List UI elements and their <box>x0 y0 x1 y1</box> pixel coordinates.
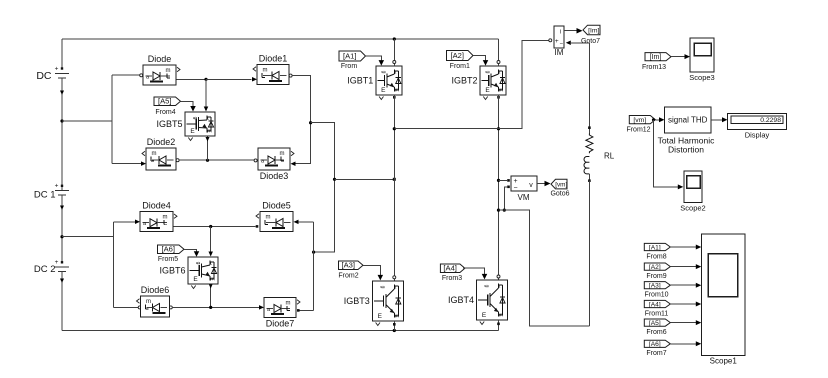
svg-text:RL: RL <box>604 152 615 161</box>
svg-text:g: g <box>195 262 201 265</box>
svg-text:From1: From1 <box>450 63 470 70</box>
svg-text:From13: From13 <box>642 64 666 71</box>
svg-text:E: E <box>485 87 490 94</box>
svg-text:From11: From11 <box>645 310 669 317</box>
svg-text:Diode3: Diode3 <box>260 171 289 181</box>
svg-text:g: g <box>379 286 385 289</box>
svg-text:[A5]: [A5] <box>649 320 661 327</box>
svg-text:Goto7: Goto7 <box>581 38 600 45</box>
svg-text:[A6]: [A6] <box>649 341 661 348</box>
svg-text:m: m <box>152 151 157 157</box>
svg-text:m: m <box>280 151 285 157</box>
svg-text:[A5]: [A5] <box>158 97 172 106</box>
svg-text:−: − <box>559 42 563 48</box>
svg-text:From4: From4 <box>155 109 175 116</box>
svg-text:Diode1: Diode1 <box>259 54 288 64</box>
svg-text:From5: From5 <box>158 256 178 263</box>
svg-text:m: m <box>146 299 151 305</box>
svg-text:+: + <box>55 66 59 73</box>
svg-text:Diode5: Diode5 <box>262 201 291 211</box>
svg-text:m: m <box>266 215 271 221</box>
svg-text:IGBT4: IGBT4 <box>448 295 474 305</box>
svg-text:[Im]: [Im] <box>588 27 599 34</box>
svg-text:m: m <box>286 301 291 307</box>
svg-text:From3: From3 <box>442 275 462 282</box>
svg-text:C: C <box>393 70 399 74</box>
svg-text:+: + <box>555 38 559 45</box>
svg-text:m: m <box>263 68 268 74</box>
svg-text:E: E <box>378 313 383 320</box>
svg-text:From9: From9 <box>646 273 666 280</box>
svg-text:Scope2: Scope2 <box>680 204 705 213</box>
svg-text:DC 1: DC 1 <box>34 190 56 201</box>
svg-text:m: m <box>166 68 171 74</box>
svg-text:Diode6: Diode6 <box>141 285 170 295</box>
svg-text:[A4]: [A4] <box>649 301 661 308</box>
svg-text:VM: VM <box>518 193 530 202</box>
svg-text:[A3]: [A3] <box>649 283 661 290</box>
svg-text:[vm]: [vm] <box>633 117 646 124</box>
svg-text:[A6]: [A6] <box>161 245 175 254</box>
svg-text:+: + <box>513 178 517 185</box>
svg-text:E: E <box>190 128 195 135</box>
svg-text:Display: Display <box>745 131 770 140</box>
svg-text:v: v <box>529 182 533 189</box>
svg-text:0.2298: 0.2298 <box>760 117 781 124</box>
svg-text:DC 2: DC 2 <box>34 264 56 275</box>
svg-text:Distortion: Distortion <box>668 145 704 155</box>
svg-text:Scope1: Scope1 <box>710 357 738 366</box>
svg-text:g: g <box>485 71 491 74</box>
svg-text:From10: From10 <box>644 292 668 299</box>
svg-text:g: g <box>484 285 490 288</box>
svg-text:[Im]: [Im] <box>650 54 662 61</box>
svg-text:signal THD: signal THD <box>668 116 708 125</box>
svg-text:IGBT2: IGBT2 <box>451 76 477 86</box>
svg-text:g: g <box>192 117 198 120</box>
svg-text:Diode7: Diode7 <box>266 319 295 329</box>
svg-text:Diode2: Diode2 <box>147 137 176 147</box>
svg-text:From2: From2 <box>338 272 358 279</box>
svg-text:E: E <box>193 276 198 283</box>
svg-text:IGBT3: IGBT3 <box>344 296 370 306</box>
svg-text:IGBT5: IGBT5 <box>156 119 182 129</box>
svg-text:C: C <box>393 285 399 289</box>
svg-text:[A1]: [A1] <box>343 51 357 60</box>
svg-text:−: − <box>513 185 517 192</box>
svg-text:C: C <box>209 261 215 265</box>
svg-text:Scope3: Scope3 <box>689 73 714 82</box>
svg-text:+: + <box>55 183 59 190</box>
svg-text:From6: From6 <box>646 329 666 336</box>
svg-text:[A1]: [A1] <box>649 244 661 251</box>
svg-text:E: E <box>482 312 487 319</box>
svg-text:Goto6: Goto6 <box>550 190 569 197</box>
svg-text:Diode: Diode <box>148 54 172 64</box>
svg-text:C: C <box>497 70 503 74</box>
svg-text:E: E <box>381 87 386 94</box>
svg-text:C: C <box>206 116 212 120</box>
svg-text:From12: From12 <box>626 127 650 134</box>
svg-text:[vm]: [vm] <box>555 182 567 189</box>
svg-text:g: g <box>380 71 386 74</box>
svg-text:m: m <box>163 215 168 221</box>
svg-text:[A4]: [A4] <box>443 264 457 273</box>
svg-text:IM: IM <box>555 48 564 57</box>
svg-text:[A3]: [A3] <box>341 261 355 270</box>
svg-text:[A2]: [A2] <box>450 51 464 60</box>
svg-text:IGBT1: IGBT1 <box>347 76 373 86</box>
svg-text:[A2]: [A2] <box>649 264 661 271</box>
svg-text:From7: From7 <box>646 350 666 357</box>
svg-text:C: C <box>497 284 503 288</box>
svg-text:i: i <box>560 30 561 36</box>
svg-text:From: From <box>341 63 358 70</box>
svg-text:From8: From8 <box>646 253 666 260</box>
svg-text:IGBT6: IGBT6 <box>159 266 185 276</box>
svg-text:DC: DC <box>36 70 52 82</box>
svg-text:Diode4: Diode4 <box>142 201 171 211</box>
